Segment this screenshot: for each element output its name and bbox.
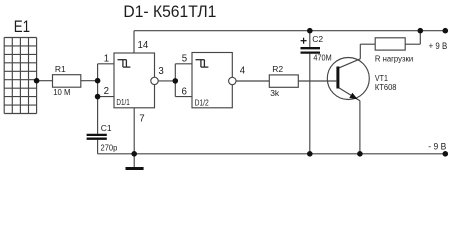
svg-text:R нагрузки: R нагрузки: [375, 53, 414, 63]
svg-text:- 9 В: - 9 В: [428, 142, 446, 153]
svg-text:4: 4: [240, 66, 246, 77]
svg-text:7: 7: [139, 113, 144, 124]
svg-text:2: 2: [104, 86, 109, 97]
svg-text:470M: 470M: [313, 53, 331, 63]
svg-text:1: 1: [104, 54, 109, 65]
svg-text:3: 3: [158, 66, 163, 77]
svg-text:6: 6: [182, 87, 187, 98]
svg-text:D1/1: D1/1: [116, 98, 129, 107]
svg-text:+ 9 В: + 9 В: [429, 41, 448, 52]
svg-text:R1: R1: [55, 64, 66, 74]
svg-text:D1/2: D1/2: [195, 98, 209, 107]
svg-text:10 M: 10 M: [53, 87, 70, 97]
svg-text:270p: 270p: [101, 142, 118, 152]
svg-text:5: 5: [182, 53, 187, 64]
svg-text:E1: E1: [14, 18, 30, 36]
svg-text:D1- К561ТЛ1: D1- К561ТЛ1: [123, 3, 216, 21]
svg-text:C1: C1: [101, 123, 112, 133]
svg-text:3k: 3k: [270, 88, 280, 98]
svg-text:14: 14: [138, 40, 149, 51]
svg-text:R2: R2: [272, 64, 283, 74]
svg-text:КТ608: КТ608: [375, 82, 397, 92]
svg-text:C2: C2: [312, 34, 323, 44]
